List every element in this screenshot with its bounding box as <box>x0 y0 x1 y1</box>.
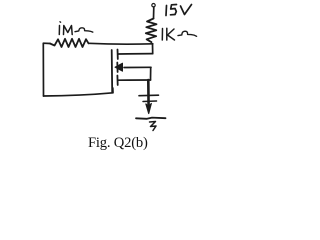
transistor Q1 substrate stub <box>124 66 151 68</box>
transistor Q1 bottom channel bar (source) <box>116 76 118 86</box>
transistor Q1 gate line <box>111 50 114 92</box>
ground bar 1 <box>139 94 159 97</box>
ground bottom bar <box>136 118 166 119</box>
label ohm squiggle for 1M <box>75 28 93 32</box>
ground bar 2 <box>143 100 157 103</box>
wire substrate-source tie <box>150 67 152 80</box>
node D: drain node wire (top edge to 1M) <box>89 42 153 45</box>
wire drain vertical <box>152 44 154 54</box>
transistor Q1 substrate arrow <box>115 63 123 71</box>
wire: bottom edge of feedback loop to gate <box>44 88 114 96</box>
supply terminal 15V <box>152 3 155 6</box>
resistor R2 1M (feedback resistor) <box>50 39 89 47</box>
transistor Q1 drain stub <box>119 53 153 55</box>
wire source down with arrow <box>147 80 150 108</box>
transistor Q1 source stub <box>119 79 151 81</box>
resistor R1 1K (drain resistor) <box>146 19 157 43</box>
arrowhead on source wire <box>146 104 151 114</box>
label 15V <box>166 5 192 16</box>
ground squiggle <box>150 122 157 131</box>
label 1M <box>59 26 72 35</box>
transistor Q1 middle channel bar <box>116 63 118 73</box>
dot above 1M label <box>59 21 62 23</box>
transistor Q1 top channel bar (drain) <box>117 50 119 60</box>
label ohm squiggle for 1K <box>178 31 197 36</box>
caption Fig. Q2(b) <box>88 135 148 152</box>
label 1K <box>162 28 174 40</box>
wire supply to resistor <box>153 7 155 19</box>
wire: left edge of feedback loop <box>43 43 50 96</box>
